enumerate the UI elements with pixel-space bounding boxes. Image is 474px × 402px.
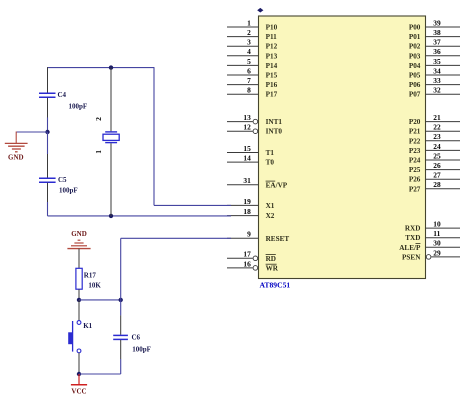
svg-text:R17: R17 (84, 272, 97, 280)
svg-text:16: 16 (243, 259, 251, 268)
svg-text:VCC: VCC (71, 387, 86, 395)
capacitor C5 (39, 176, 78, 194)
svg-text:C4: C4 (58, 91, 67, 99)
wire reset node horizontal (79, 299, 121, 301)
pin 27 P26 (right) (409, 171, 460, 184)
wire left branch top (C4 lead) (47, 67, 49, 93)
wire C5 top lead (47, 154, 49, 178)
svg-text:100pF: 100pF (69, 102, 88, 110)
svg-text:P26: P26 (409, 176, 421, 184)
pin 28 P27 (right) (409, 180, 460, 193)
pin 31 EA/VP (left) (227, 176, 288, 189)
svg-text:P21: P21 (409, 128, 421, 136)
wire bottom rail to X2 (48, 215, 232, 217)
power VCC (71, 374, 87, 395)
svg-text:X2: X2 (266, 212, 275, 220)
svg-text:RESET: RESET (266, 235, 290, 243)
svg-text:PSEN: PSEN (402, 253, 421, 261)
svg-text:P22: P22 (409, 137, 421, 145)
svg-text:P00: P00 (409, 24, 421, 32)
svg-text:INT0: INT0 (266, 128, 283, 136)
pin 33 P06 (right) (409, 76, 460, 89)
pin 1 P10 (left) (227, 18, 278, 31)
junction reset node left (77, 298, 81, 302)
pin 6 P15 (left) (227, 66, 278, 79)
svg-text:32: 32 (433, 86, 441, 95)
junction reset node right (119, 298, 123, 302)
pin 12 INT0 (left) (227, 123, 282, 136)
svg-text:P03: P03 (409, 52, 421, 60)
svg-text:13: 13 (243, 113, 251, 122)
pin 4 P13 (left) (227, 47, 278, 60)
wire R17 to reset node (lead) (78, 289, 80, 300)
wire RESET horizontal to chip (121, 237, 231, 239)
wire reset node to switch (lead) (78, 300, 80, 321)
wire crystal bottom lead (110, 143, 112, 216)
svg-text:14: 14 (243, 154, 251, 163)
resistor R17 (76, 268, 102, 289)
junction crystal top (109, 65, 113, 69)
svg-text:100pF: 100pF (59, 186, 78, 194)
svg-text:ALE/P: ALE/P (399, 244, 421, 252)
svg-text:38: 38 (433, 28, 441, 37)
svg-text:11: 11 (433, 229, 440, 238)
wire C6 bottom lead (120, 340, 122, 359)
svg-text:19: 19 (243, 197, 251, 206)
svg-text:8: 8 (247, 86, 251, 95)
svg-text:P06: P06 (409, 81, 421, 89)
svg-text:39: 39 (433, 18, 441, 27)
capacitor C4 (39, 91, 87, 110)
wire C4 to GND tap (47, 118, 49, 133)
pin 16 WR (left) (227, 259, 279, 272)
svg-text:25: 25 (433, 151, 441, 160)
svg-text:34: 34 (433, 66, 441, 75)
pin 3 P12 (left) (227, 38, 278, 51)
pin 5 P14 (left) (227, 57, 278, 70)
svg-text:K1: K1 (83, 322, 92, 330)
svg-text:2: 2 (94, 117, 103, 121)
wire C6 branch bottom (120, 359, 122, 374)
svg-text:7: 7 (247, 76, 251, 85)
junction GND tap (45, 130, 49, 134)
svg-text:100pF: 100pF (132, 345, 151, 353)
svg-text:TXD: TXD (405, 234, 420, 242)
svg-text:2: 2 (247, 28, 251, 37)
svg-text:24: 24 (433, 142, 441, 151)
pin 30 ALE/P (right) (399, 239, 460, 252)
svg-text:21: 21 (433, 113, 441, 122)
svg-text:P07: P07 (409, 91, 421, 99)
svg-text:27: 27 (433, 171, 441, 180)
pin 17 RD (left) (227, 250, 276, 263)
svg-text:28: 28 (433, 180, 441, 189)
svg-text:GND: GND (71, 230, 87, 238)
pin 22 P21 (right) (409, 123, 460, 136)
svg-text:31: 31 (243, 176, 251, 185)
pin 14 T0 (left) (227, 154, 274, 167)
wire RESET riser (120, 238, 122, 300)
svg-text:30: 30 (433, 239, 441, 248)
wire GND stub horizontal (16, 131, 47, 133)
pin 37 P02 (right) (409, 38, 460, 51)
svg-text:X1: X1 (266, 202, 275, 210)
svg-text:1: 1 (247, 18, 251, 27)
svg-text:AT89C51: AT89C51 (260, 281, 291, 290)
capacitor C6 (113, 334, 151, 354)
svg-text:P12: P12 (266, 43, 278, 51)
wire C5 to bottom rail (47, 202, 49, 216)
svg-text:C5: C5 (58, 176, 67, 184)
pin 39 P00 (right) (409, 18, 460, 31)
svg-text:33: 33 (433, 76, 441, 85)
svg-text:P25: P25 (409, 166, 421, 174)
svg-text:C6: C6 (132, 334, 141, 342)
node top-left marker diamond (257, 8, 263, 13)
svg-text:P17: P17 (266, 91, 278, 99)
svg-text:36: 36 (433, 47, 441, 56)
svg-text:T1: T1 (266, 149, 275, 157)
svg-text:T0: T0 (266, 159, 275, 167)
op-amp U1 AT89C51 IC body (259, 16, 426, 279)
svg-text:P13: P13 (266, 52, 278, 60)
svg-text:9: 9 (247, 230, 251, 239)
svg-text:P23: P23 (409, 147, 421, 155)
pin 25 P24 (right) (409, 151, 460, 164)
svg-text:4: 4 (247, 47, 251, 56)
svg-text:P11: P11 (266, 33, 278, 41)
pin 13 INT1 (left) (227, 113, 282, 126)
wire GND tap to C5 (47, 132, 49, 154)
wire C4 bottom lead (47, 98, 49, 118)
pin 11 TXD (right) (405, 229, 460, 242)
svg-text:P15: P15 (266, 72, 278, 80)
svg-text:EA/VP: EA/VP (266, 181, 288, 189)
svg-text:P14: P14 (266, 62, 278, 70)
svg-text:P20: P20 (409, 118, 421, 126)
wire top horizontal (C4/crystal/X1 net) (48, 67, 155, 69)
pin 26 P25 (right) (409, 161, 460, 174)
svg-text:P16: P16 (266, 81, 278, 89)
svg-text:WR: WR (266, 264, 279, 272)
pin 32 P07 (right) (409, 86, 460, 99)
wire X1 horizontal (154, 204, 231, 206)
svg-text:INT1: INT1 (266, 118, 283, 126)
svg-text:1: 1 (94, 150, 103, 154)
pin 34 P05 (right) (409, 66, 460, 79)
svg-text:P24: P24 (409, 157, 421, 165)
svg-text:12: 12 (243, 123, 251, 132)
svg-text:3: 3 (247, 38, 251, 47)
svg-text:6: 6 (247, 66, 251, 75)
pin 36 P03 (right) (409, 47, 460, 60)
svg-text:29: 29 (433, 248, 441, 257)
svg-text:P01: P01 (409, 33, 421, 41)
wire C6 branch top (120, 300, 122, 316)
pin 2 P11 (left) (227, 28, 277, 41)
svg-text:P02: P02 (409, 43, 421, 51)
svg-text:GND: GND (8, 154, 24, 162)
svg-text:P10: P10 (266, 24, 278, 32)
svg-text:5: 5 (247, 57, 251, 66)
wire switch to bottom node (lead) (78, 353, 80, 374)
svg-text:RD: RD (266, 255, 276, 263)
pin 7 P16 (left) (227, 76, 278, 89)
wire X1 riser (153, 67, 155, 205)
switch K1 (68, 321, 92, 353)
svg-text:P04: P04 (409, 62, 421, 70)
pin 10 RXD (right) (405, 220, 460, 233)
pin 15 T1 (left) (227, 144, 274, 157)
junction crystal bottom (109, 214, 113, 218)
svg-text:18: 18 (243, 207, 251, 216)
pin 18 X2 (left) (227, 207, 275, 220)
pin 24 P23 (right) (409, 142, 460, 155)
pin 9 RESET (left) (227, 230, 289, 243)
svg-text:22: 22 (433, 123, 441, 132)
crystal Y1 (94, 117, 119, 154)
svg-text:26: 26 (433, 161, 441, 170)
pin 21 P20 (right) (409, 113, 460, 126)
pin 8 P17 (left) (227, 86, 278, 99)
pin 19 X1 (left) (227, 197, 275, 210)
svg-text:35: 35 (433, 57, 441, 66)
wire crystal top lead (110, 68, 112, 132)
pin 29 PSEN (right) (402, 248, 460, 261)
ground GND (reset, inverted) (67, 230, 90, 248)
svg-text:10: 10 (433, 220, 441, 229)
svg-text:15: 15 (243, 144, 251, 153)
ground GND (oscillator) (5, 132, 28, 162)
pin 35 P04 (right) (409, 57, 460, 70)
wire C6 top lead (120, 315, 122, 334)
svg-text:23: 23 (433, 132, 441, 141)
svg-text:P27: P27 (409, 185, 421, 193)
svg-text:10K: 10K (88, 282, 101, 290)
junction bottom node (77, 372, 81, 376)
svg-text:17: 17 (243, 250, 251, 259)
wire GND to R17 (lead) (78, 249, 80, 269)
wire C5 bottom lead (47, 183, 49, 202)
svg-text:RXD: RXD (405, 225, 421, 233)
svg-text:P05: P05 (409, 72, 421, 80)
IC name label AT89C51 (260, 281, 291, 290)
pin 23 P22 (right) (409, 132, 460, 145)
pin 38 P01 (right) (409, 28, 460, 41)
wire bottom horizontal (79, 373, 121, 375)
svg-text:37: 37 (433, 38, 441, 47)
